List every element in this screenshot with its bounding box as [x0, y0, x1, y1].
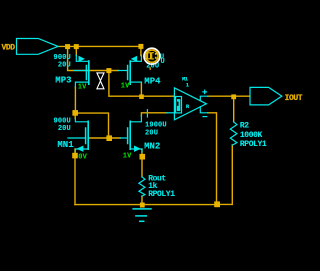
svg-text:IOUT: IOUT [285, 94, 303, 103]
svg-text:VDD: VDD [2, 44, 16, 53]
svg-text:RPOLY1: RPOLY1 [240, 140, 267, 149]
svg-text:1V: 1V [121, 83, 130, 91]
svg-text:MP4: MP4 [144, 77, 161, 87]
svg-text:MN1: MN1 [57, 140, 74, 150]
svg-text:20U: 20U [58, 125, 71, 133]
svg-text:1900U: 1900U [145, 122, 167, 130]
svg-text:1000K: 1000K [240, 131, 263, 140]
svg-text:MP3: MP3 [55, 76, 71, 86]
svg-text:0V: 0V [78, 154, 87, 162]
svg-text:RPOLY1: RPOLY1 [148, 190, 175, 199]
svg-text:1V: 1V [78, 83, 87, 91]
svg-text:R2: R2 [240, 121, 249, 130]
svg-text:20U: 20U [58, 61, 71, 69]
svg-text:U: U [161, 58, 165, 66]
svg-text:1V: 1V [123, 152, 132, 160]
svg-text:20U: 20U [145, 130, 158, 138]
svg-text:MN2: MN2 [144, 141, 160, 151]
